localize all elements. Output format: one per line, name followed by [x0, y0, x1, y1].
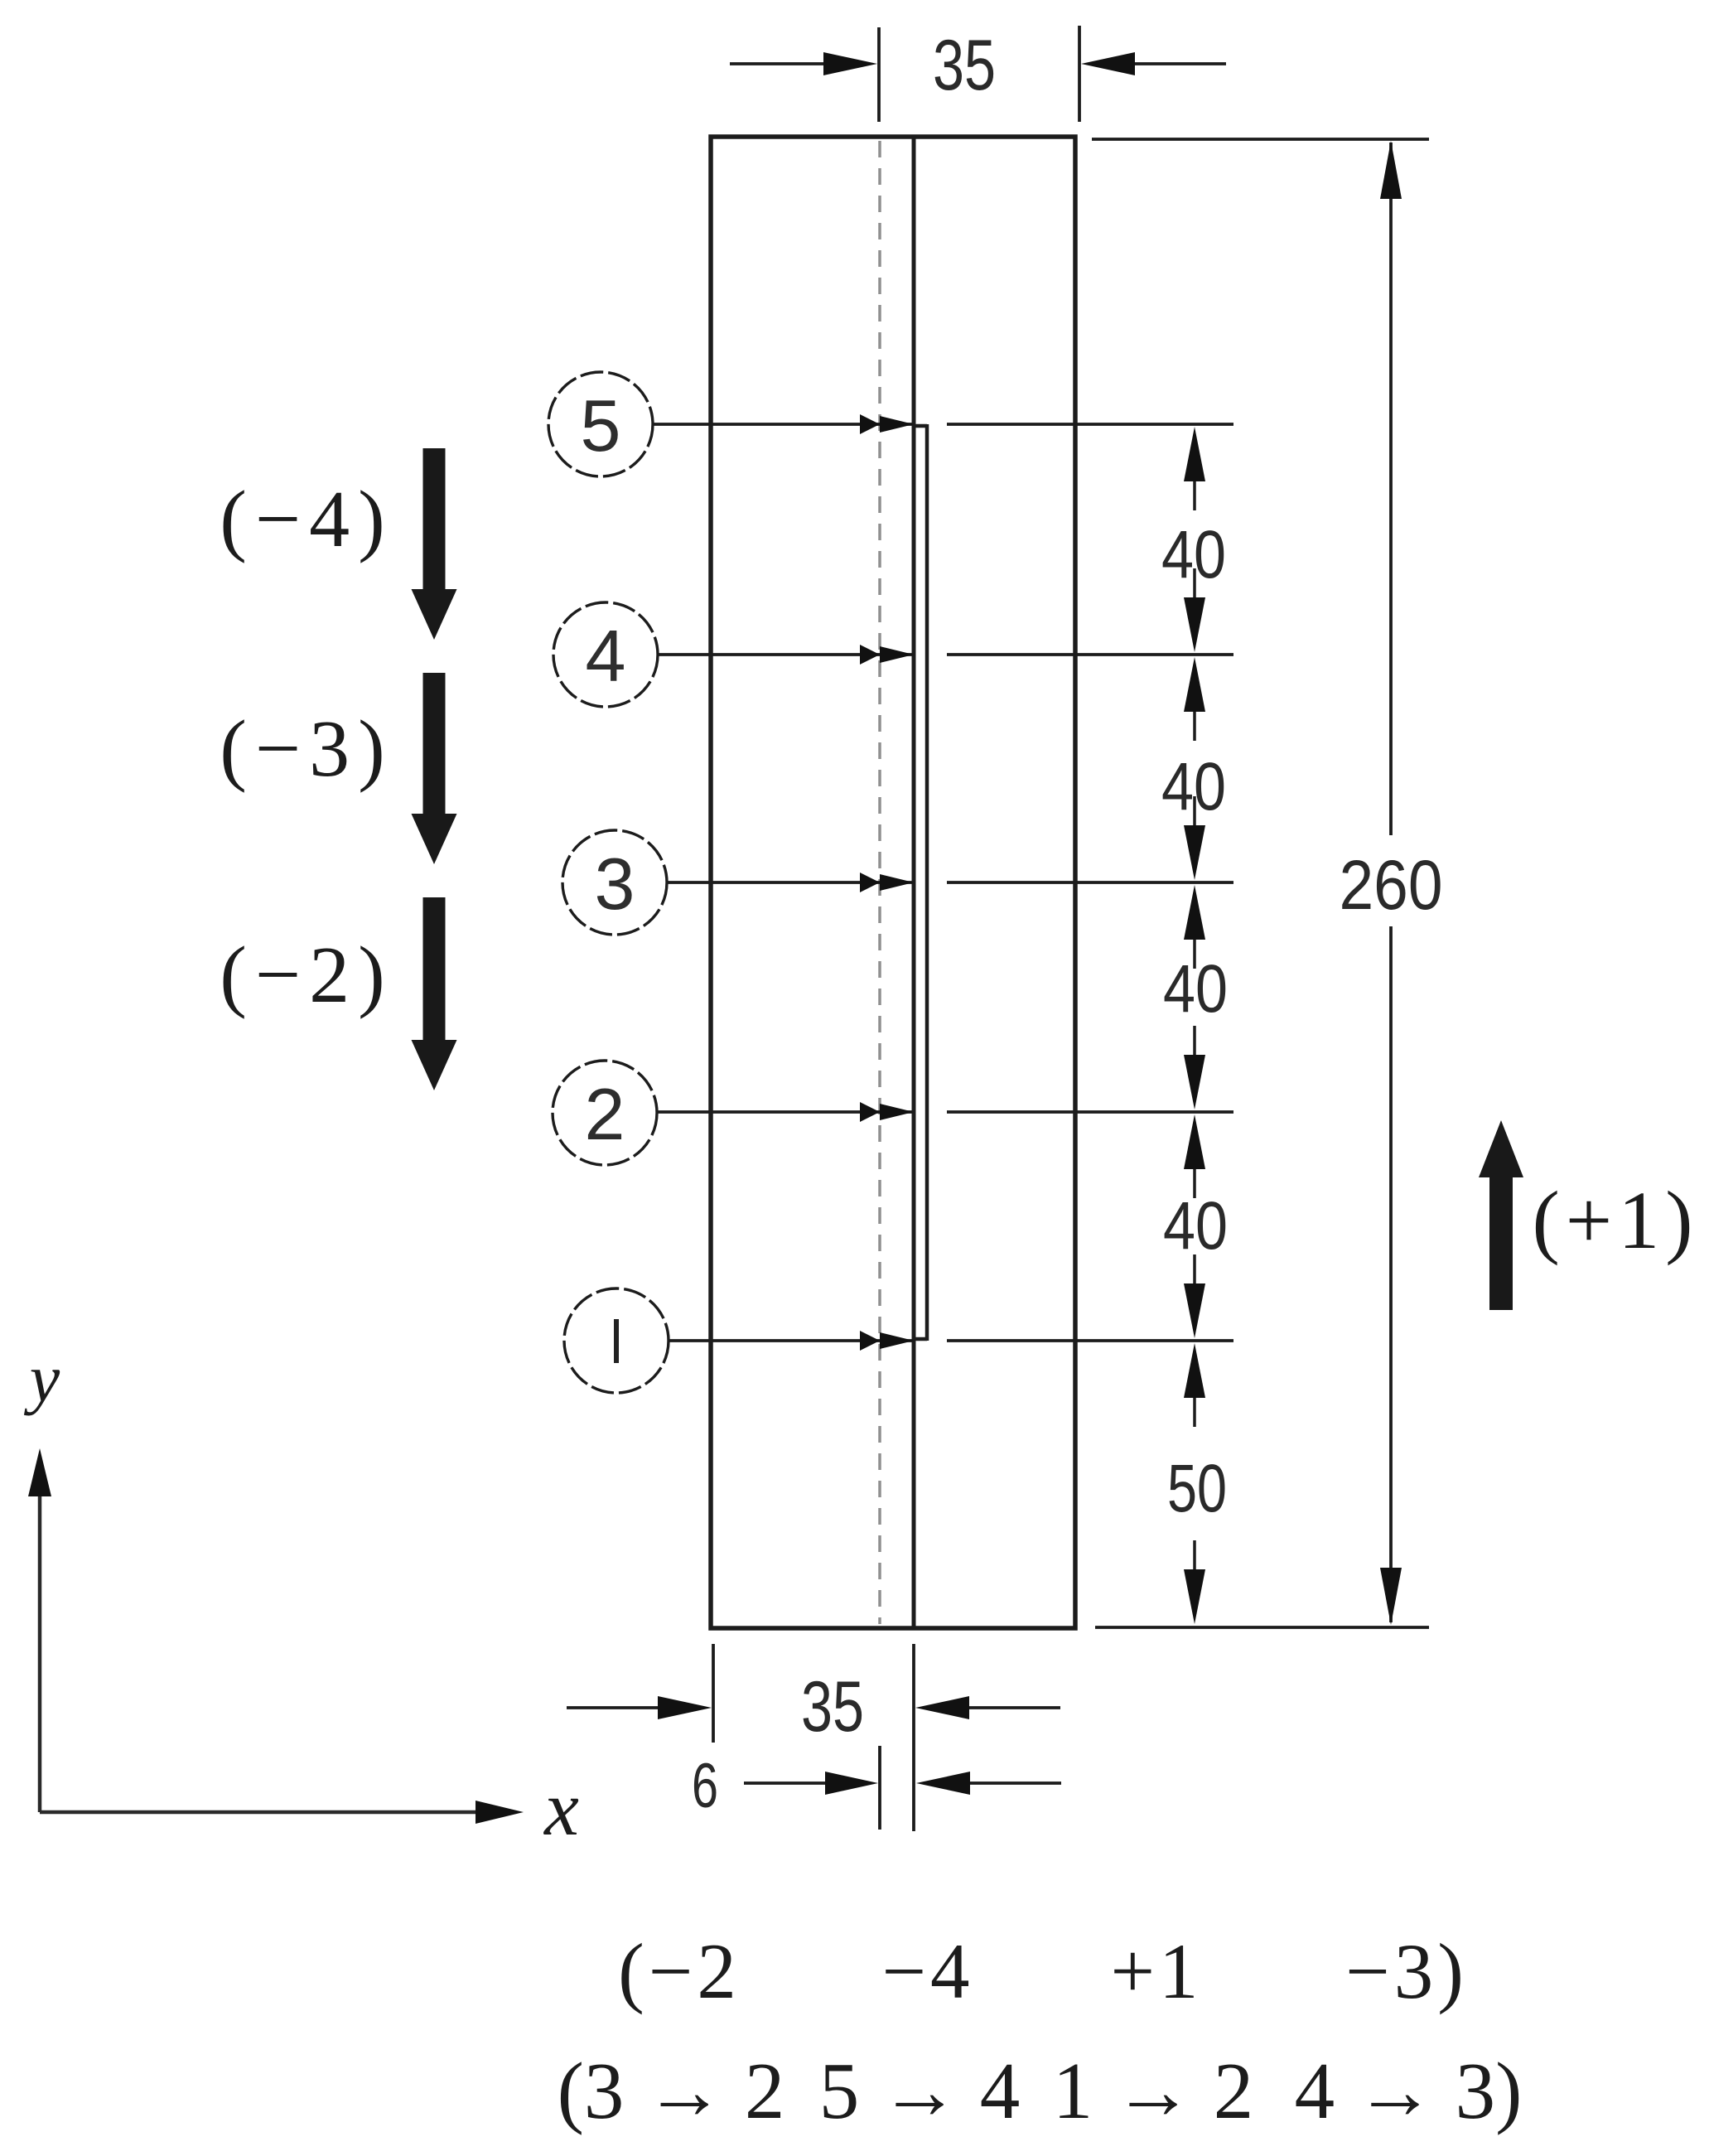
svg-text:(+1): (+1)	[1533, 1174, 1699, 1266]
svg-text:1 → 2: 1 → 2	[1053, 2047, 1254, 2135]
svg-text:(−2): (−2)	[220, 931, 393, 1020]
svg-text:40: 40	[1161, 517, 1226, 592]
svg-text:50: 50	[1167, 1451, 1227, 1526]
svg-text:−4: −4	[881, 1927, 973, 2015]
svg-text:(3 → 2: (3 → 2	[558, 2047, 785, 2135]
svg-text:5: 5	[581, 384, 621, 466]
svg-text:2: 2	[585, 1073, 625, 1155]
svg-text:x: x	[543, 1766, 579, 1852]
svg-text:40: 40	[1161, 749, 1226, 824]
svg-text:260: 260	[1340, 846, 1443, 924]
svg-text:+1: +1	[1110, 1927, 1202, 2015]
svg-text:(−4): (−4)	[220, 475, 393, 564]
svg-text:6: 6	[692, 1751, 718, 1821]
svg-text:35: 35	[933, 26, 996, 105]
svg-text:5 → 4: 5 → 4	[819, 2047, 1021, 2135]
svg-text:(−2: (−2	[618, 1927, 741, 2015]
svg-text:y: y	[24, 1341, 60, 1416]
svg-text:4 → 3): 4 → 3)	[1295, 2047, 1523, 2135]
svg-text:4: 4	[586, 615, 626, 697]
svg-text:40: 40	[1163, 951, 1228, 1027]
svg-text:3: 3	[595, 843, 635, 925]
svg-text:35: 35	[801, 1667, 864, 1747]
svg-text:40: 40	[1163, 1188, 1228, 1264]
svg-text:−3): −3)	[1345, 1927, 1468, 2015]
svg-text:(−3): (−3)	[220, 704, 393, 794]
